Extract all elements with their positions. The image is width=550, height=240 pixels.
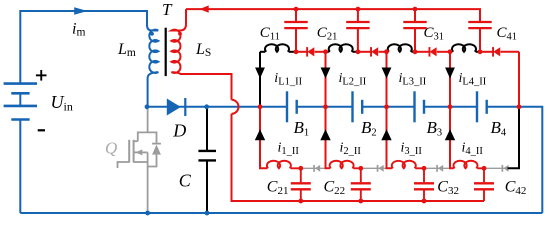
diode stage 4 top (red, points left) [480,47,519,57]
inductor L4 (top loops) [450,44,480,52]
diode gray stage 2 (points left) [377,165,384,172]
svg-text:T: T [162,0,173,19]
node Lm dot [150,32,154,36]
node arrow i3_II up [381,129,391,140]
battery B4 [477,91,487,122]
inductor stage 4 bottom (red loops) [454,161,484,169]
node arrow iL4_II down [445,68,455,79]
wire gray link stage 3 [424,167,450,169]
capacitor C (black) [206,107,208,150]
wire: red hop over mid rail [232,100,239,114]
node arrow iL1_II down [255,68,265,79]
capacitor C31 [403,9,426,52]
inductor stage 1 bottom (red loops) [267,161,301,169]
inductor L3 (top loops) [387,44,416,52]
inductor stage 2 bottom (red loops) [330,161,361,169]
wire column 2 lower [326,107,330,169]
node arrow i1_II up [255,129,265,140]
battery B3 [415,91,425,122]
wire: bottom blue rail [20,212,542,214]
capacitor C11 [284,9,307,52]
wire gray link stage 2 [361,167,387,169]
node junction dots (red) [258,7,522,204]
node arrow iL3_II down [382,68,392,79]
wire stage 4 bottom link (black) [508,107,520,169]
capacitor C32 bottom [414,168,434,201]
wire stage 4 output to mid rail (red) [518,52,520,107]
wire column 3 lower [387,107,392,169]
svg-text:Q: Q [105,139,117,158]
node red left arrow on top rail [200,5,209,12]
capacitor C22 bottom [351,168,371,201]
svg-text:D: D [172,121,186,141]
wire column 1 upper [259,52,261,107]
wire: top-left blue loop (Uin+ to transformer) [20,11,158,84]
node arrow i_m (blue right arrow on top wire) [74,7,87,15]
battery B2 [353,91,363,122]
wire column 2 upper [325,52,327,107]
node junction dots (blue) [145,104,210,215]
diode stage 1 top (red, points left) [296,47,326,57]
transformer core [165,28,167,76]
inductor L2 (top loops) [326,44,358,52]
svg-text:C: C [179,171,192,191]
capacitor C21 bottom [291,168,311,201]
wire gray link stage 4 [484,167,508,169]
wire column 3 upper [386,52,388,107]
diode D (blue) [167,99,181,116]
wire gray link stage 1 [301,167,326,169]
battery Uin plates [4,84,37,120]
wire: red top rail [186,9,480,21]
node minus label [38,129,45,131]
diode gray stage 1 (points left) [313,165,320,172]
capacitor C21 [346,9,369,52]
node plus label [36,74,47,76]
inductor stage 3 bottom (red loops) [392,161,424,169]
wire column 4 upper [449,52,451,107]
inductor L1 (top loops) [260,44,296,52]
node Ls dot [178,32,182,36]
wire: red down to bottom red rail [232,114,485,201]
diode gray stage 4 (points left) [502,165,509,172]
node arrow iL2_II down [321,68,331,79]
battery B1 [287,91,297,122]
wire: mid blue rail segments [147,107,542,213]
inductor Ls (red, bumps right) [172,9,232,100]
capacitor C42 bottom [474,168,494,201]
diode gray stage 3 (points left) [436,165,443,172]
wire: battery internal stub [19,93,21,106]
wire: battery minus down to bottom rail [19,120,21,214]
capacitor C41 [468,22,491,52]
node arrow i2_II up [320,129,330,140]
diode stage 2 top (red, points left) [358,47,387,57]
wire column 1 lower [260,107,267,169]
node arrow i4_II up [445,129,455,140]
transistor Q (gray MOSFET) [118,107,161,213]
inductor Lm (blue, bumps left) [148,30,159,107]
wire column 4 lower [450,107,454,169]
diode stage 3 top (red, points left) [415,47,450,57]
